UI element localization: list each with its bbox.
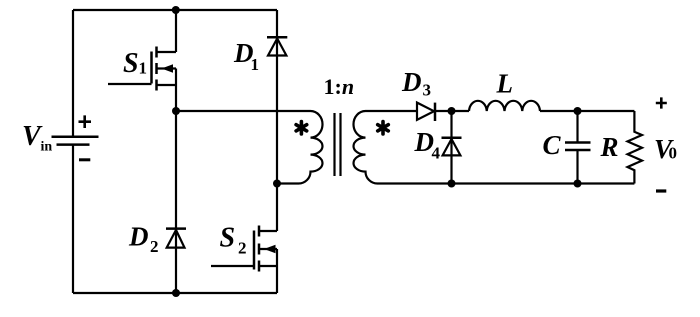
node S1 source middle rail junction [172, 107, 180, 115]
transistor Q S1 mosfet body [108, 47, 176, 91]
diode D2 vertical branch [175, 111, 177, 293]
svg-text:2: 2 [238, 239, 247, 258]
diode D4 cathode bar [442, 136, 462, 139]
svg-text:S: S [123, 48, 139, 79]
svg-text:D: D [128, 222, 149, 252]
diode D4 vertical branch [450, 111, 452, 184]
diode D1 cathode bar [267, 36, 287, 39]
diode D3 triangle [417, 103, 434, 120]
label primary dot asterisk [296, 122, 307, 134]
wire S1 drain vertical [175, 10, 177, 52]
battery Vin plus sign [79, 115, 92, 128]
wire S1 source vertical [175, 69, 177, 112]
battery Vin plate long [52, 136, 99, 139]
node C top junction [574, 107, 582, 115]
wire top rail [73, 9, 277, 11]
svg-text:D: D [401, 67, 422, 97]
diode D2 triangle [167, 230, 185, 248]
wire S2 drain vertical [276, 184, 278, 232]
svg-text:S: S [220, 223, 236, 254]
node D4 bottom rail junction [448, 180, 456, 188]
resistor R zigzag [628, 111, 643, 184]
node primary bottom D1 S2 junction [273, 180, 281, 188]
wire left rail lower (Vin- side) [72, 145, 74, 293]
svg-text:in: in [41, 140, 53, 155]
node C bottom junction [574, 180, 582, 188]
svg-text:C: C [543, 130, 562, 160]
diode D3 cathode bar [434, 103, 437, 121]
diode D1 triangle [268, 39, 286, 56]
node top S1 drain junction [172, 6, 180, 14]
svg-text:3: 3 [423, 81, 432, 100]
wire L to C node [540, 110, 578, 112]
wire bottom rail [73, 292, 277, 294]
node D3 D4 L junction [448, 107, 456, 115]
wire left rail upper (Vin+ side) [72, 10, 74, 137]
diode D4 triangle [443, 139, 461, 155]
output minus sign [656, 189, 666, 192]
transformer core lines [335, 113, 341, 176]
transformer secondary winding [354, 111, 635, 184]
wire S2 source vertical [276, 249, 278, 293]
svg-text:0: 0 [669, 144, 678, 163]
node D2 bottom rail junction [172, 289, 180, 297]
svg-text:2: 2 [150, 237, 159, 256]
transformer primary winding [277, 111, 323, 184]
capacitor C bottom lead [576, 151, 578, 184]
svg-text:L: L [496, 69, 514, 99]
transistor Q S2 mosfet body [211, 226, 277, 272]
inductor L winding [469, 101, 540, 111]
wire D1 S2 vertical branch [276, 10, 278, 184]
wire middle rail S1 source to transformer primary [176, 110, 277, 112]
output plus sign [656, 97, 667, 108]
svg-text:1: 1 [139, 59, 148, 78]
svg-text:1: 1 [251, 55, 260, 74]
svg-text:R: R [600, 132, 619, 162]
battery Vin minus sign [79, 158, 90, 161]
capacitor C plates [565, 143, 591, 151]
svg-text:1:n: 1:n [324, 74, 355, 99]
wire D3 cathode to L [435, 110, 469, 112]
battery Vin plate short [57, 143, 90, 146]
diode D2 cathode bar [166, 227, 186, 230]
capacitor C top lead [576, 111, 578, 142]
label secondary dot asterisk [378, 122, 389, 134]
wire C node to R [578, 110, 635, 112]
svg-text:4: 4 [432, 144, 441, 163]
